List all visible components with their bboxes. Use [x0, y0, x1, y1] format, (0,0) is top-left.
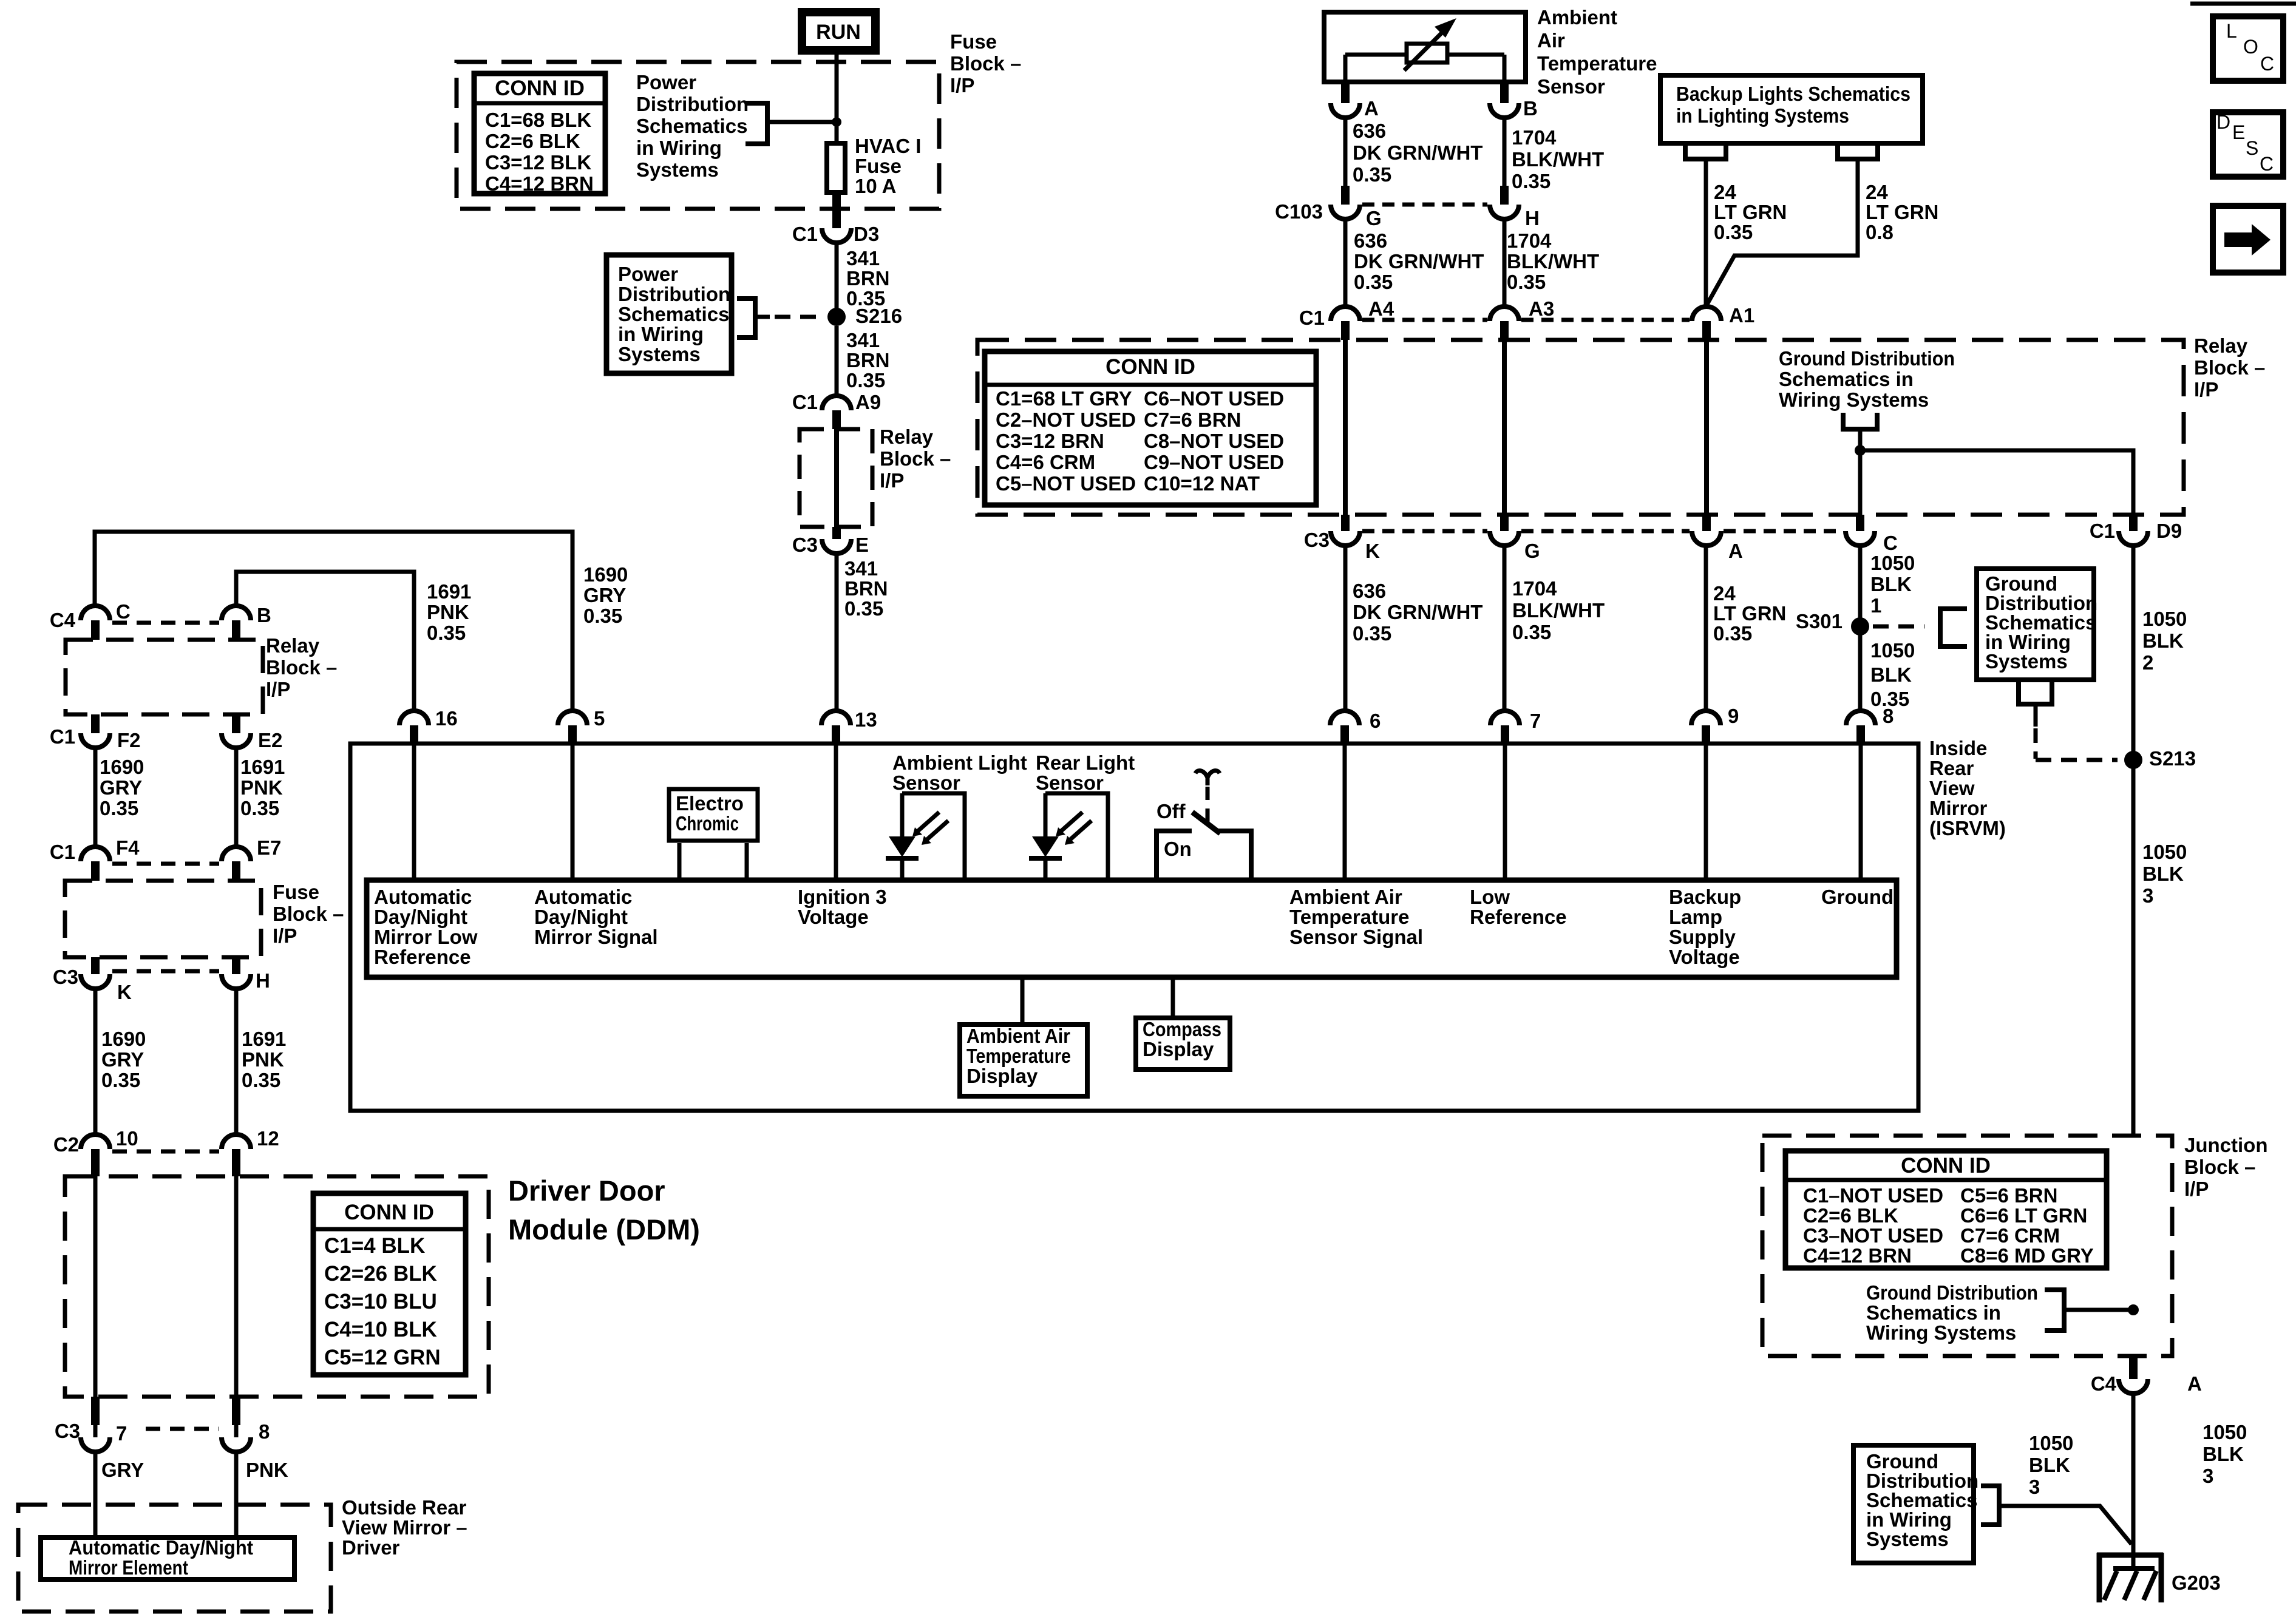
svg-text:C1–NOT USED: C1–NOT USED [1803, 1184, 1943, 1207]
svg-text:Driver Door: Driver Door [508, 1175, 665, 1207]
wire 1704 seg2 [1503, 219, 1507, 307]
wire 636 inside relay block [1343, 340, 1348, 515]
svg-text:C4=12 BRN: C4=12 BRN [1803, 1244, 1912, 1267]
wire 636 seg2 [1343, 219, 1348, 307]
label Ground Distribution Schematics in Wiring Systems (junction) [1866, 1281, 2038, 1344]
backup lights lead 2 [1707, 142, 1878, 305]
svg-text:Mirror Low: Mirror Low [374, 926, 478, 948]
wire 1691 PNK seg2 [234, 747, 239, 847]
CONN ID table DDM [313, 1193, 466, 1375]
svg-text:C: C [1883, 532, 1898, 554]
svg-text:I/P: I/P [266, 678, 290, 700]
svg-text:0.35: 0.35 [1714, 221, 1753, 243]
svg-text:C4=12 BRN: C4=12 BRN [485, 172, 594, 195]
svg-text:Fuse: Fuse [855, 155, 902, 177]
label Fuse Block - I/P (left) [273, 881, 344, 947]
svg-text:0.35: 0.35 [1353, 163, 1391, 186]
connector C4 pin A [2091, 1356, 2202, 1395]
svg-text:GRY: GRY [101, 1459, 144, 1481]
reference pointer S301 to ground distribution box [1873, 609, 1967, 646]
svg-text:Automatic Day/Night: Automatic Day/Night [69, 1536, 253, 1559]
label Relay Block - I/P (left) [266, 634, 337, 700]
svg-text:CONN ID: CONN ID [1901, 1154, 1991, 1178]
label 1050 BLK 3 (above junction block) [2142, 841, 2187, 907]
svg-text:BLK: BLK [2142, 629, 2184, 652]
connector row 7-8 [146, 1427, 219, 1431]
svg-text:BRN: BRN [846, 349, 890, 371]
node junction block ground tap [2128, 1304, 2139, 1315]
svg-text:Relay: Relay [266, 634, 320, 657]
LOC box [2213, 16, 2283, 81]
svg-text:PNK: PNK [246, 1459, 288, 1481]
svg-text:G203: G203 [2172, 1571, 2221, 1594]
connector C3 pin G (row2) [1490, 515, 1540, 562]
connector C1 pin A1 [1692, 304, 1754, 340]
label 636 DK GRN/WHT 0.35 (2) [1354, 229, 1484, 293]
ISRVM internal wire x943 [571, 745, 575, 878]
label 1704 BLK/WHT 0.35 (3) [1512, 577, 1605, 643]
wire PNK to mirror element [234, 1451, 239, 1535]
svg-text:C2=6 BLK: C2=6 BLK [485, 130, 580, 152]
svg-text:Reference: Reference [374, 946, 471, 968]
svg-text:I/P: I/P [273, 924, 297, 947]
svg-text:1691: 1691 [427, 580, 471, 603]
svg-text:RUN: RUN [816, 21, 861, 44]
ISRVM pin 7 [1490, 710, 1541, 743]
svg-text:C2: C2 [53, 1133, 79, 1156]
svg-text:C3: C3 [53, 966, 78, 988]
backup lights lead 1 [1685, 142, 1726, 307]
svg-text:Ambient: Ambient [1537, 6, 1617, 29]
svg-text:Schematics in: Schematics in [1779, 368, 1914, 390]
svg-text:BLK: BLK [2029, 1454, 2070, 1476]
connector C1 pin A9 [792, 391, 881, 429]
svg-text:Day/Night: Day/Night [534, 906, 628, 928]
label 1691 PNK 0.35 (left 1) [240, 756, 285, 819]
svg-text:C5=12 GRN: C5=12 GRN [324, 1346, 441, 1369]
svg-text:24: 24 [1866, 181, 1888, 203]
sensor pin A [1331, 84, 1379, 120]
svg-text:C103: C103 [1275, 200, 1323, 223]
connector C4 pin B [222, 604, 271, 640]
connector C3 pin 7 [55, 1397, 127, 1452]
svg-text:I/P: I/P [2184, 1178, 2209, 1200]
sensor pin B [1490, 84, 1538, 120]
connector C103 pin G [1275, 186, 1382, 229]
svg-text:A1: A1 [1729, 304, 1754, 327]
wire 1691 PNK top run [236, 572, 414, 711]
wire 1690 GRY seg3 [93, 988, 98, 1134]
svg-text:E: E [855, 534, 869, 556]
svg-text:Wiring Systems: Wiring Systems [1866, 1321, 2016, 1344]
relay block I/P dashed box (small) [800, 429, 872, 527]
svg-text:Mirror: Mirror [1929, 797, 1988, 819]
connector C1 pin D3 [792, 195, 879, 245]
svg-text:A: A [1364, 97, 1379, 120]
svg-text:Rear Light: Rear Light [1036, 751, 1135, 774]
reference pointer bottom box to G203 wire [1981, 1486, 2131, 1544]
svg-text:Temperature: Temperature [966, 1045, 1071, 1067]
svg-text:I/P: I/P [950, 74, 974, 97]
svg-text:Ground Distribution: Ground Distribution [1779, 347, 1955, 370]
arrow box [2213, 206, 2283, 273]
svg-text:H: H [256, 969, 270, 992]
svg-text:636: 636 [1353, 580, 1386, 602]
svg-text:9: 9 [1728, 705, 1739, 727]
svg-text:Temperature: Temperature [1289, 906, 1409, 928]
svg-text:C7=6 CRM: C7=6 CRM [1960, 1224, 2060, 1247]
svg-text:C: C [2260, 153, 2274, 175]
svg-text:Block –: Block – [2184, 1156, 2255, 1178]
label 1050 BLK 2 [2142, 608, 2187, 674]
svg-text:3: 3 [2203, 1465, 2213, 1487]
svg-text:Driver: Driver [342, 1536, 400, 1559]
svg-text:Distribution: Distribution [618, 283, 730, 305]
svg-text:CONN ID: CONN ID [495, 76, 585, 100]
svg-text:G: G [1524, 540, 1540, 562]
svg-text:8: 8 [1883, 705, 1894, 727]
CONN ID table junction block [1785, 1151, 2107, 1268]
svg-text:C7=6 BRN: C7=6 BRN [1144, 408, 1241, 431]
svg-text:Voltage: Voltage [798, 906, 869, 928]
label 1050 BLK 3 (right of wire) [2203, 1421, 2247, 1487]
reference pointer ground distribution (relay) [1843, 413, 1877, 446]
svg-text:1050: 1050 [2142, 841, 2187, 863]
svg-text:Relay: Relay [2194, 334, 2248, 357]
label On [1164, 838, 1192, 860]
svg-text:Block –: Block – [2194, 356, 2265, 379]
wire 636 seg1 [1343, 117, 1348, 186]
svg-text:PNK: PNK [427, 601, 469, 623]
svg-text:Systems: Systems [1866, 1528, 1949, 1550]
svg-text:C6–NOT USED: C6–NOT USED [1144, 387, 1284, 410]
svg-text:Sensor Signal: Sensor Signal [1289, 926, 1423, 948]
fuse HVAC I 10A [827, 143, 845, 192]
svg-text:A4: A4 [1368, 297, 1394, 320]
svg-text:H: H [1525, 207, 1540, 229]
label 1691 PNK 0.35 (left 2) [242, 1028, 286, 1091]
svg-text:C5–NOT USED: C5–NOT USED [996, 472, 1136, 495]
label Inside Rear View Mirror (ISRVM) [1929, 737, 2006, 839]
svg-text:13: 13 [855, 708, 877, 731]
wire PNK inside DDM [234, 1175, 239, 1437]
svg-text:C5=6 BRN: C5=6 BRN [1960, 1184, 2057, 1207]
wire 1704 seg1 [1503, 117, 1507, 186]
connector C3 pin E [792, 527, 869, 556]
svg-text:1690: 1690 [583, 563, 628, 586]
wire 1050 BLK to G203 [2131, 1392, 2136, 1571]
CONN ID table fuse block [474, 73, 605, 195]
label Fuse Block - I/P [950, 30, 1021, 97]
box Power Distribution Schematics in Wiring Systems (2) [606, 255, 732, 373]
svg-text:Chromic: Chromic [676, 812, 739, 835]
svg-text:24: 24 [1713, 582, 1736, 605]
node ground feed [1855, 445, 1866, 456]
svg-text:C1: C1 [2090, 520, 2115, 542]
label Power Distribution Schematics in Wiring Systems (top) [636, 71, 749, 181]
wire 636 seg3 [1343, 544, 1348, 711]
svg-text:1050: 1050 [2142, 608, 2187, 630]
svg-text:C1: C1 [50, 725, 75, 748]
automatic day/night mirror element box [41, 1536, 294, 1579]
svg-text:D9: D9 [2156, 520, 2182, 542]
label 341 BRN 0.35 (1) [846, 247, 890, 310]
svg-text:On: On [1164, 838, 1192, 860]
svg-text:5: 5 [594, 707, 605, 730]
svg-text:Ambient Air: Ambient Air [966, 1025, 1070, 1047]
svg-text:C2=26 BLK: C2=26 BLK [324, 1262, 437, 1286]
svg-text:Electro: Electro [676, 792, 744, 815]
ground distribution schematics box (right) [1977, 569, 2097, 680]
svg-text:16: 16 [435, 707, 458, 730]
outside rear view mirror dashed box [18, 1505, 331, 1612]
splice S216 [827, 305, 902, 327]
ambient air temperature display box [960, 980, 1087, 1096]
svg-text:Off: Off [1156, 800, 1186, 822]
label GRY [101, 1459, 144, 1481]
label 24 LT GRN 0.35 [1714, 181, 1787, 243]
ISRVM internal terminal rail [367, 880, 1897, 977]
label 1690 GRY 0.35 (left 2) [101, 1028, 146, 1091]
svg-text:636: 636 [1354, 229, 1387, 252]
svg-text:C10=12 NAT: C10=12 NAT [1144, 472, 1260, 495]
svg-text:Backup Lights Schematics: Backup Lights Schematics [1676, 83, 1911, 105]
svg-text:I/P: I/P [880, 469, 904, 492]
svg-text:C3–NOT USED: C3–NOT USED [1803, 1224, 1943, 1247]
splice S213 [2124, 747, 2196, 770]
svg-text:C1=4 BLK: C1=4 BLK [324, 1234, 425, 1258]
svg-text:C3=10 BLU: C3=10 BLU [324, 1290, 437, 1314]
connector row A4-A3-A1 [1362, 318, 1690, 322]
svg-text:BLK: BLK [2142, 863, 2184, 885]
svg-text:View Mirror –: View Mirror – [342, 1516, 467, 1539]
ground distribution schematics box (bottom) [1853, 1445, 1978, 1563]
svg-text:C4: C4 [2091, 1372, 2117, 1395]
svg-text:Low: Low [1470, 886, 1510, 908]
svg-text:C1: C1 [1299, 307, 1325, 329]
CONN ID table relay block [985, 351, 1316, 505]
svg-text:S301: S301 [1796, 610, 1843, 632]
connector C1 pin F4 [50, 836, 140, 881]
electro chromic element box [669, 789, 758, 841]
compass display box [1136, 980, 1230, 1070]
svg-text:Outside Rear: Outside Rear [342, 1496, 467, 1519]
ambient air temperature sensor box [1324, 12, 1526, 82]
svg-text:10: 10 [116, 1127, 138, 1150]
label 1050 BLK 3 (pointer) [2029, 1432, 2073, 1498]
svg-text:Power: Power [636, 71, 696, 93]
svg-text:LT GRN: LT GRN [1713, 602, 1786, 625]
wire ground bus [1860, 450, 2133, 515]
svg-text:Sensor: Sensor [1537, 75, 1605, 98]
svg-text:Day/Night: Day/Night [374, 906, 467, 928]
svg-text:G: G [1366, 207, 1382, 229]
svg-text:0.35: 0.35 [846, 369, 885, 392]
svg-text:D: D [2216, 111, 2230, 133]
DESC box [2213, 111, 2283, 177]
label 1690 GRY 0.35 (pin5 leg) [583, 563, 628, 627]
photodiode rear light sensor [1029, 793, 1108, 878]
svg-text:Block –: Block – [950, 52, 1021, 75]
label 24 LT GRN 0.8 [1866, 181, 1938, 243]
label HVAC I Fuse 10 A [855, 135, 921, 197]
ISRVM pin 8 [1846, 705, 1894, 743]
svg-text:Ground: Ground [1821, 886, 1894, 908]
svg-text:Power: Power [618, 263, 678, 285]
label Junction Block - I/P [2184, 1134, 2268, 1200]
svg-text:DK GRN/WHT: DK GRN/WHT [1353, 601, 1483, 623]
wire 341 BRN segment 1 [835, 242, 839, 310]
connector row F4-E7 [112, 862, 219, 866]
svg-text:1690: 1690 [101, 1028, 146, 1050]
svg-text:D3: D3 [854, 223, 879, 245]
svg-text:1690: 1690 [100, 756, 144, 778]
svg-text:Mirror Element: Mirror Element [69, 1556, 188, 1579]
relay block I/P dashed box (big) [977, 340, 2184, 515]
label 636 DK GRN/WHT 0.35 (3) [1353, 580, 1483, 645]
svg-text:8: 8 [259, 1420, 270, 1443]
svg-text:6: 6 [1370, 710, 1381, 732]
svg-text:12: 12 [257, 1127, 279, 1150]
svg-text:BLK/WHT: BLK/WHT [1507, 250, 1599, 273]
svg-text:Air: Air [1537, 29, 1565, 52]
svg-text:in Wiring: in Wiring [636, 137, 722, 159]
svg-text:HVAC I: HVAC I [855, 135, 921, 157]
connector C1 pin A4 [1299, 297, 1394, 340]
svg-text:BRN: BRN [844, 577, 888, 600]
svg-text:BLK/WHT: BLK/WHT [1512, 599, 1605, 622]
label Off [1156, 800, 1186, 822]
svg-text:0.35: 0.35 [1353, 622, 1391, 645]
svg-text:LT GRN: LT GRN [1866, 201, 1938, 223]
svg-text:S216: S216 [855, 305, 902, 327]
pin label Automatic Day/Night Mirror Signal [534, 886, 658, 948]
svg-text:A9: A9 [855, 391, 881, 413]
svg-text:C4=10 BLK: C4=10 BLK [324, 1318, 437, 1341]
electro chromic leads [679, 843, 747, 878]
reference pointer box to S213 [2019, 682, 2118, 760]
svg-text:Voltage: Voltage [1669, 946, 1740, 968]
svg-text:Block –: Block – [266, 656, 337, 679]
label Relay Block - I/P (small) [880, 425, 951, 492]
svg-text:L: L [2226, 20, 2237, 42]
connector C3 pin 8 [222, 1397, 270, 1452]
svg-text:Ambient Air: Ambient Air [1289, 886, 1402, 908]
connector C3 pin K (row2) [1304, 515, 1380, 562]
pin label Backup Lamp Supply Voltage [1669, 886, 1741, 968]
svg-text:A: A [1728, 540, 1743, 562]
svg-text:341: 341 [846, 247, 880, 269]
svg-text:1691: 1691 [242, 1028, 286, 1050]
ambient light sensor label [892, 751, 1027, 794]
wire 1704 inside relay block [1502, 340, 1507, 515]
label 341 BRN 0.35 (2) [846, 329, 890, 392]
svg-text:24: 24 [1714, 181, 1736, 203]
connector row K-H [112, 969, 219, 974]
svg-text:Display: Display [1143, 1038, 1214, 1060]
svg-text:Schematics in: Schematics in [1866, 1301, 2001, 1324]
svg-text:C3=12 BLK: C3=12 BLK [485, 151, 591, 174]
svg-text:in Wiring: in Wiring [618, 323, 704, 345]
svg-text:7: 7 [116, 1422, 127, 1445]
connector C1 pin E7 [222, 836, 281, 881]
ISRVM pin 13 [821, 708, 877, 743]
svg-text:B: B [257, 604, 271, 626]
wire 1704 seg3 [1503, 544, 1507, 711]
wire 24 LT GRN seg3 [1704, 544, 1708, 711]
svg-text:I/P: I/P [2194, 378, 2218, 401]
ISRVM internal wire x2215 [1343, 745, 1347, 878]
svg-text:Sensor: Sensor [1036, 771, 1104, 794]
svg-text:K: K [117, 981, 132, 1003]
svg-text:Systems: Systems [1985, 650, 2068, 673]
svg-text:A3: A3 [1529, 297, 1554, 320]
svg-text:B: B [1523, 97, 1538, 120]
label Ground Distribution Schematics in Wiring Systems (relay) [1779, 347, 1955, 411]
label 1704 BLK/WHT 0.35 (1) [1512, 126, 1604, 192]
svg-text:Schematics: Schematics [618, 303, 729, 325]
svg-text:DK GRN/WHT: DK GRN/WHT [1354, 250, 1484, 273]
svg-text:Distribution: Distribution [636, 93, 749, 115]
ISRVM internal wire x2810 [1704, 745, 1708, 878]
label 1050 BLK 1 [1870, 552, 1915, 617]
svg-text:1704: 1704 [1512, 577, 1557, 600]
node junction on RUN feed [832, 117, 841, 127]
connector C3 pin C (row2) [1846, 515, 1898, 554]
pin label Ignition 3 Voltage [798, 886, 887, 928]
svg-text:7: 7 [1530, 710, 1541, 732]
svg-text:C3: C3 [792, 534, 818, 556]
photodiode ambient light sensor [886, 793, 965, 878]
connector C1 pin E2 [222, 714, 282, 751]
svg-text:Sensor: Sensor [892, 771, 960, 794]
svg-text:E7: E7 [257, 836, 281, 859]
svg-text:Junction: Junction [2184, 1134, 2268, 1156]
svg-text:Ambient Light: Ambient Light [892, 751, 1027, 774]
svg-text:E: E [2232, 121, 2245, 143]
pin label Automatic Day/Night Mirror Low Reference [374, 886, 478, 968]
svg-text:1050: 1050 [2203, 1421, 2247, 1443]
junction block I/P dashed box [1762, 1136, 2172, 1356]
svg-text:1050: 1050 [1870, 552, 1915, 574]
svg-text:GRY: GRY [583, 584, 626, 606]
pin label Ground [1821, 886, 1894, 908]
svg-text:PNK: PNK [242, 1048, 284, 1071]
ISRVM pin 16 [399, 707, 458, 743]
driver door module DDM dashed box [65, 1176, 489, 1397]
svg-text:Mirror Signal: Mirror Signal [534, 926, 658, 948]
svg-text:C2–NOT USED: C2–NOT USED [996, 408, 1136, 431]
svg-text:Systems: Systems [618, 343, 701, 365]
svg-text:0.8: 0.8 [1866, 221, 1894, 243]
svg-text:C3: C3 [55, 1420, 80, 1442]
label Ambient Air Temperature Sensor [1537, 6, 1657, 98]
label 1690 GRY 0.35 (left 1) [100, 756, 144, 819]
svg-text:Fuse: Fuse [273, 881, 319, 903]
svg-text:BLK: BLK [2203, 1443, 2244, 1465]
connector C1 pin F2 [50, 714, 141, 751]
svg-text:10 A: 10 A [855, 175, 896, 197]
svg-text:C1: C1 [50, 841, 75, 863]
connector row G-H [1362, 203, 1487, 207]
label Driver Door Module (DDM) [508, 1175, 700, 1246]
svg-text:1050: 1050 [1870, 639, 1915, 662]
svg-text:GRY: GRY [100, 776, 142, 799]
label 636 DK GRN/WHT 0.35 (1) [1353, 120, 1483, 186]
svg-text:GRY: GRY [101, 1048, 144, 1071]
svg-text:0.35: 0.35 [242, 1069, 280, 1091]
svg-text:Block –: Block – [880, 447, 951, 470]
